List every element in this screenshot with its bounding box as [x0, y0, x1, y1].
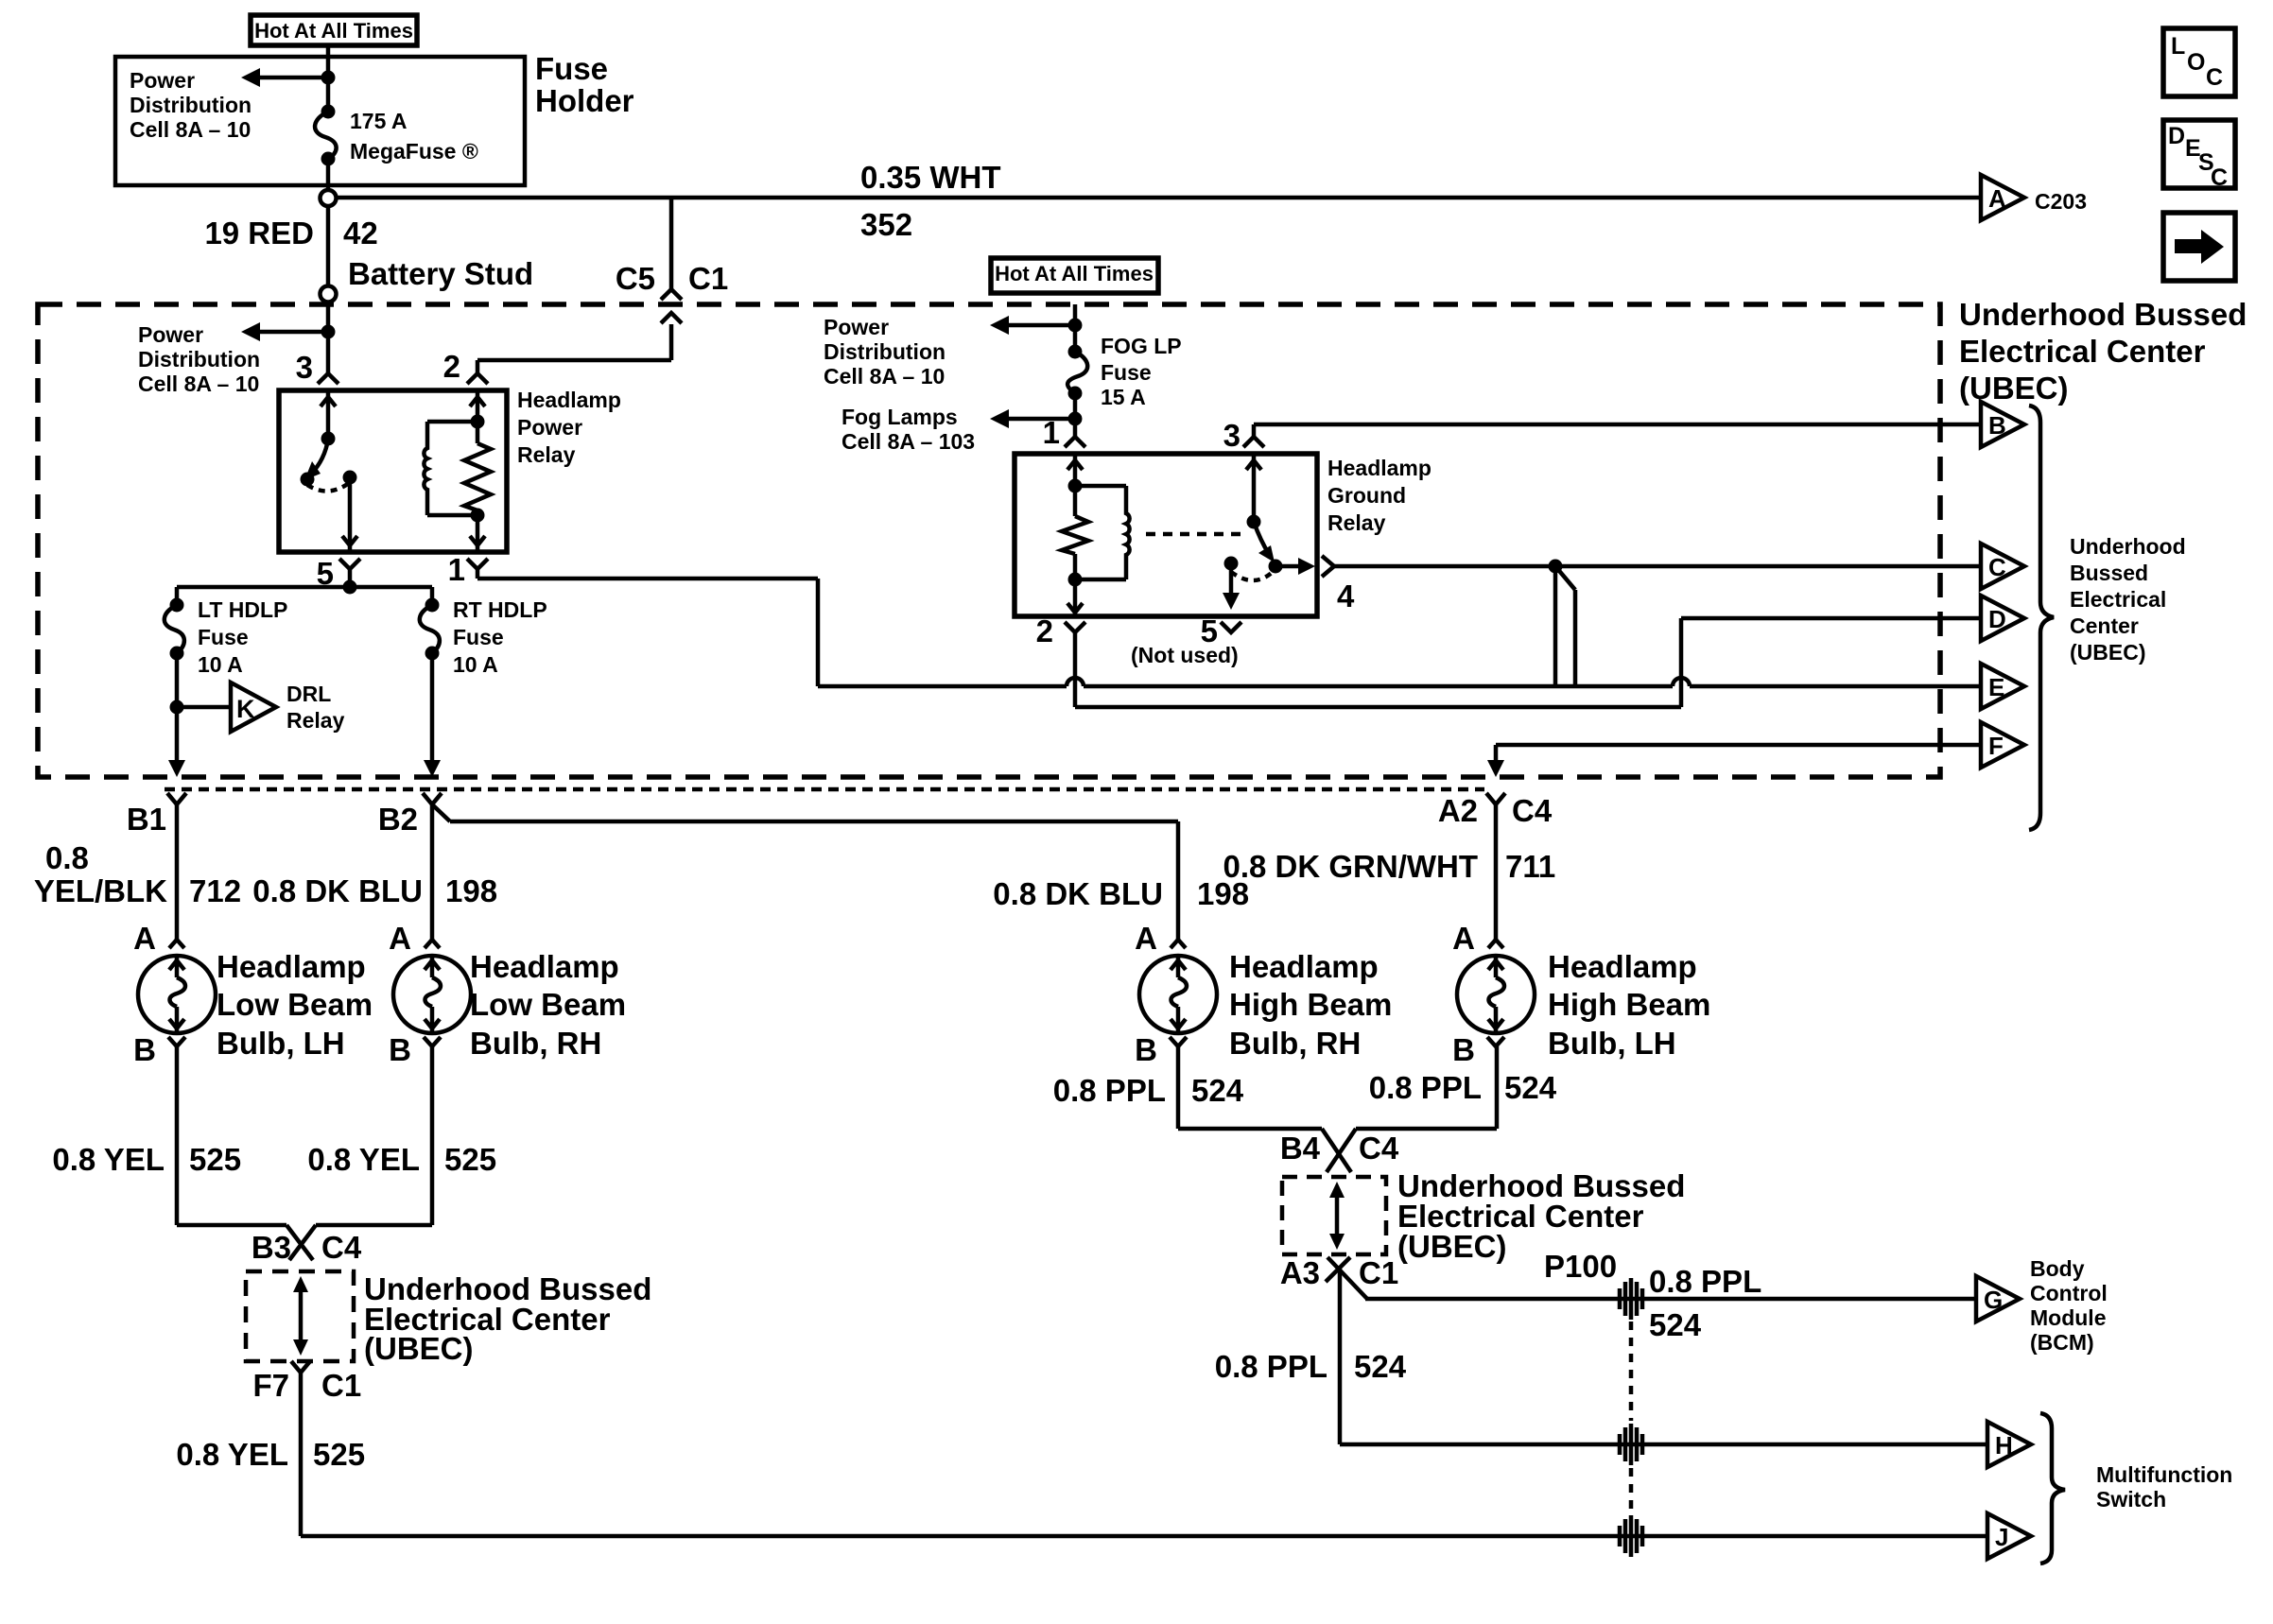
svg-text:2: 2	[443, 349, 460, 384]
svg-text:P100: P100	[1544, 1249, 1617, 1284]
svg-text:525: 525	[189, 1142, 241, 1177]
svg-text:0.8 PPL: 0.8 PPL	[1649, 1264, 1761, 1299]
svg-text:Multifunction: Multifunction	[2096, 1462, 2232, 1487]
svg-text:(UBEC): (UBEC)	[2070, 640, 2146, 665]
svg-text:Headlamp: Headlamp	[470, 949, 619, 984]
svg-text:G: G	[1984, 1286, 2003, 1314]
svg-text:Power: Power	[517, 415, 582, 440]
svg-text:Cell 8A – 10: Cell 8A – 10	[824, 364, 945, 389]
svg-text:42: 42	[343, 216, 378, 251]
svg-text:Low Beam: Low Beam	[470, 987, 626, 1022]
svg-text:A: A	[1135, 921, 1157, 956]
svg-text:15 A: 15 A	[1101, 385, 1146, 409]
svg-text:Low Beam: Low Beam	[217, 987, 373, 1022]
svg-text:524: 524	[1504, 1070, 1557, 1105]
svg-text:B: B	[1988, 411, 2006, 440]
svg-text:Headlamp: Headlamp	[217, 949, 366, 984]
svg-text:C1: C1	[1359, 1255, 1398, 1290]
svg-text:Fuse: Fuse	[453, 625, 504, 649]
svg-text:Hot At All Times: Hot At All Times	[995, 262, 1154, 285]
svg-text:Fuse: Fuse	[198, 625, 249, 649]
svg-text:B2: B2	[378, 802, 418, 837]
svg-text:YEL/BLK: YEL/BLK	[34, 873, 167, 908]
svg-text:198: 198	[445, 873, 497, 908]
svg-text:Relay: Relay	[1327, 510, 1386, 535]
svg-text:L: L	[2171, 33, 2185, 60]
svg-text:Electrical: Electrical	[2070, 587, 2166, 612]
svg-text:Cell 8A – 10: Cell 8A – 10	[138, 371, 259, 396]
svg-text:19 RED: 19 RED	[204, 216, 314, 251]
svg-text:Power: Power	[138, 322, 203, 347]
svg-text:Underhood Bussed: Underhood Bussed	[1959, 297, 2247, 332]
svg-text:B3: B3	[252, 1230, 291, 1265]
svg-text:0.8 YEL: 0.8 YEL	[176, 1437, 288, 1472]
svg-text:0.35 WHT: 0.35 WHT	[860, 160, 1001, 195]
svg-text:E: E	[1988, 673, 2004, 701]
svg-text:O: O	[2187, 49, 2205, 76]
svg-text:524: 524	[1649, 1307, 1702, 1342]
svg-text:352: 352	[860, 207, 912, 242]
svg-text:0.8 YEL: 0.8 YEL	[307, 1142, 420, 1177]
svg-text:Power: Power	[824, 315, 889, 339]
svg-text:MegaFuse ®: MegaFuse ®	[350, 139, 478, 164]
svg-text:C203: C203	[2035, 189, 2087, 214]
svg-text:Fuse: Fuse	[1101, 360, 1152, 385]
svg-text:B: B	[389, 1032, 411, 1067]
svg-text:FOG LP: FOG LP	[1101, 334, 1182, 358]
svg-text:Fog Lamps: Fog Lamps	[842, 405, 958, 429]
svg-text:3: 3	[1223, 418, 1241, 453]
svg-text:0.8 PPL: 0.8 PPL	[1053, 1073, 1166, 1108]
svg-text:High Beam: High Beam	[1548, 987, 1710, 1022]
svg-text:Underhood: Underhood	[2070, 534, 2186, 559]
svg-text:J: J	[1995, 1523, 2008, 1551]
svg-text:C5: C5	[616, 261, 655, 296]
svg-text:0.8 DK GRN/WHT: 0.8 DK GRN/WHT	[1223, 849, 1478, 884]
svg-text:C4: C4	[1512, 793, 1553, 828]
svg-text:Holder: Holder	[535, 83, 634, 118]
svg-text:Power: Power	[130, 68, 195, 93]
svg-text:A3: A3	[1280, 1255, 1320, 1290]
svg-text:0.8: 0.8	[45, 840, 89, 875]
svg-text:(UBEC): (UBEC)	[364, 1331, 473, 1366]
svg-text:Hot At All Times: Hot At All Times	[254, 19, 413, 43]
svg-text:A: A	[133, 921, 156, 956]
svg-text:4: 4	[1337, 579, 1355, 613]
svg-text:1: 1	[1043, 415, 1060, 450]
svg-text:(Not used): (Not used)	[1131, 643, 1239, 667]
svg-text:C: C	[1988, 553, 2006, 581]
svg-text:Ground: Ground	[1327, 483, 1406, 508]
svg-text:B1: B1	[127, 802, 166, 837]
svg-text:0.8 PPL: 0.8 PPL	[1369, 1070, 1482, 1105]
svg-text:(BCM): (BCM)	[2030, 1330, 2094, 1355]
svg-text:D: D	[2168, 123, 2185, 149]
svg-text:(UBEC): (UBEC)	[1397, 1229, 1506, 1264]
svg-text:A: A	[1452, 921, 1475, 956]
svg-text:Module: Module	[2030, 1305, 2107, 1330]
svg-text:K: K	[236, 695, 255, 723]
svg-text:Headlamp: Headlamp	[1229, 949, 1379, 984]
svg-text:Body: Body	[2030, 1256, 2085, 1281]
svg-text:10 A: 10 A	[198, 652, 243, 677]
svg-text:711: 711	[1505, 849, 1555, 884]
svg-text:175 A: 175 A	[350, 109, 408, 133]
svg-text:712: 712	[189, 873, 241, 908]
svg-text:A: A	[389, 921, 411, 956]
svg-text:Switch: Switch	[2096, 1487, 2166, 1512]
svg-text:524: 524	[1354, 1349, 1407, 1384]
svg-text:0.8 DK BLU: 0.8 DK BLU	[993, 876, 1163, 911]
svg-text:F7: F7	[252, 1368, 289, 1403]
svg-text:Cell 8A – 10: Cell 8A – 10	[130, 117, 251, 142]
svg-text:D: D	[1988, 605, 2006, 633]
svg-text:(UBEC): (UBEC)	[1959, 371, 2068, 406]
svg-text:H: H	[1995, 1431, 2013, 1460]
svg-text:Center: Center	[2070, 613, 2139, 638]
svg-text:Fuse: Fuse	[535, 51, 608, 86]
svg-text:Bulb, LH: Bulb, LH	[217, 1026, 345, 1061]
svg-text:C4: C4	[1359, 1131, 1399, 1166]
svg-text:525: 525	[313, 1437, 365, 1472]
svg-text:1: 1	[448, 552, 465, 587]
svg-text:0.8 PPL: 0.8 PPL	[1215, 1349, 1327, 1384]
svg-text:525: 525	[444, 1142, 496, 1177]
svg-text:Distribution: Distribution	[824, 339, 946, 364]
svg-text:Headlamp: Headlamp	[517, 388, 621, 412]
svg-text:Bussed: Bussed	[2070, 561, 2148, 585]
svg-text:10 A: 10 A	[453, 652, 498, 677]
svg-text:B: B	[133, 1032, 156, 1067]
svg-text:C1: C1	[321, 1368, 361, 1403]
svg-text:RT HDLP: RT HDLP	[453, 597, 547, 622]
svg-text:B: B	[1135, 1032, 1157, 1067]
svg-text:B4: B4	[1280, 1131, 1321, 1166]
svg-text:C4: C4	[321, 1230, 362, 1265]
svg-text:Distribution: Distribution	[130, 93, 252, 117]
svg-text:Bulb, RH: Bulb, RH	[1229, 1026, 1361, 1061]
svg-text:524: 524	[1191, 1073, 1244, 1108]
svg-text:Headlamp: Headlamp	[1548, 949, 1697, 984]
svg-text:A2: A2	[1438, 793, 1478, 828]
svg-text:Cell 8A – 103: Cell 8A – 103	[842, 429, 975, 454]
svg-text:C: C	[2206, 64, 2223, 91]
svg-text:C: C	[2211, 164, 2228, 191]
svg-text:Battery Stud: Battery Stud	[348, 256, 533, 291]
svg-text:Relay: Relay	[517, 442, 576, 467]
svg-text:Distribution: Distribution	[138, 347, 260, 371]
svg-text:Control: Control	[2030, 1281, 2108, 1305]
svg-text:DRL: DRL	[286, 682, 331, 706]
svg-text:High Beam: High Beam	[1229, 987, 1392, 1022]
svg-text:Electrical Center: Electrical Center	[1959, 334, 2206, 369]
svg-text:Headlamp: Headlamp	[1327, 456, 1431, 480]
svg-text:A: A	[1988, 184, 2006, 213]
svg-text:F: F	[1988, 732, 2004, 760]
svg-text:0.8 DK BLU: 0.8 DK BLU	[252, 873, 423, 908]
svg-text:C1: C1	[688, 261, 728, 296]
svg-text:Bulb, LH: Bulb, LH	[1548, 1026, 1676, 1061]
svg-text:3: 3	[296, 350, 313, 385]
svg-text:Bulb, RH: Bulb, RH	[470, 1026, 601, 1061]
svg-text:Relay: Relay	[286, 708, 345, 733]
svg-text:B: B	[1452, 1032, 1475, 1067]
svg-text:2: 2	[1036, 613, 1053, 648]
svg-text:LT HDLP: LT HDLP	[198, 597, 287, 622]
svg-text:0.8 YEL: 0.8 YEL	[52, 1142, 165, 1177]
